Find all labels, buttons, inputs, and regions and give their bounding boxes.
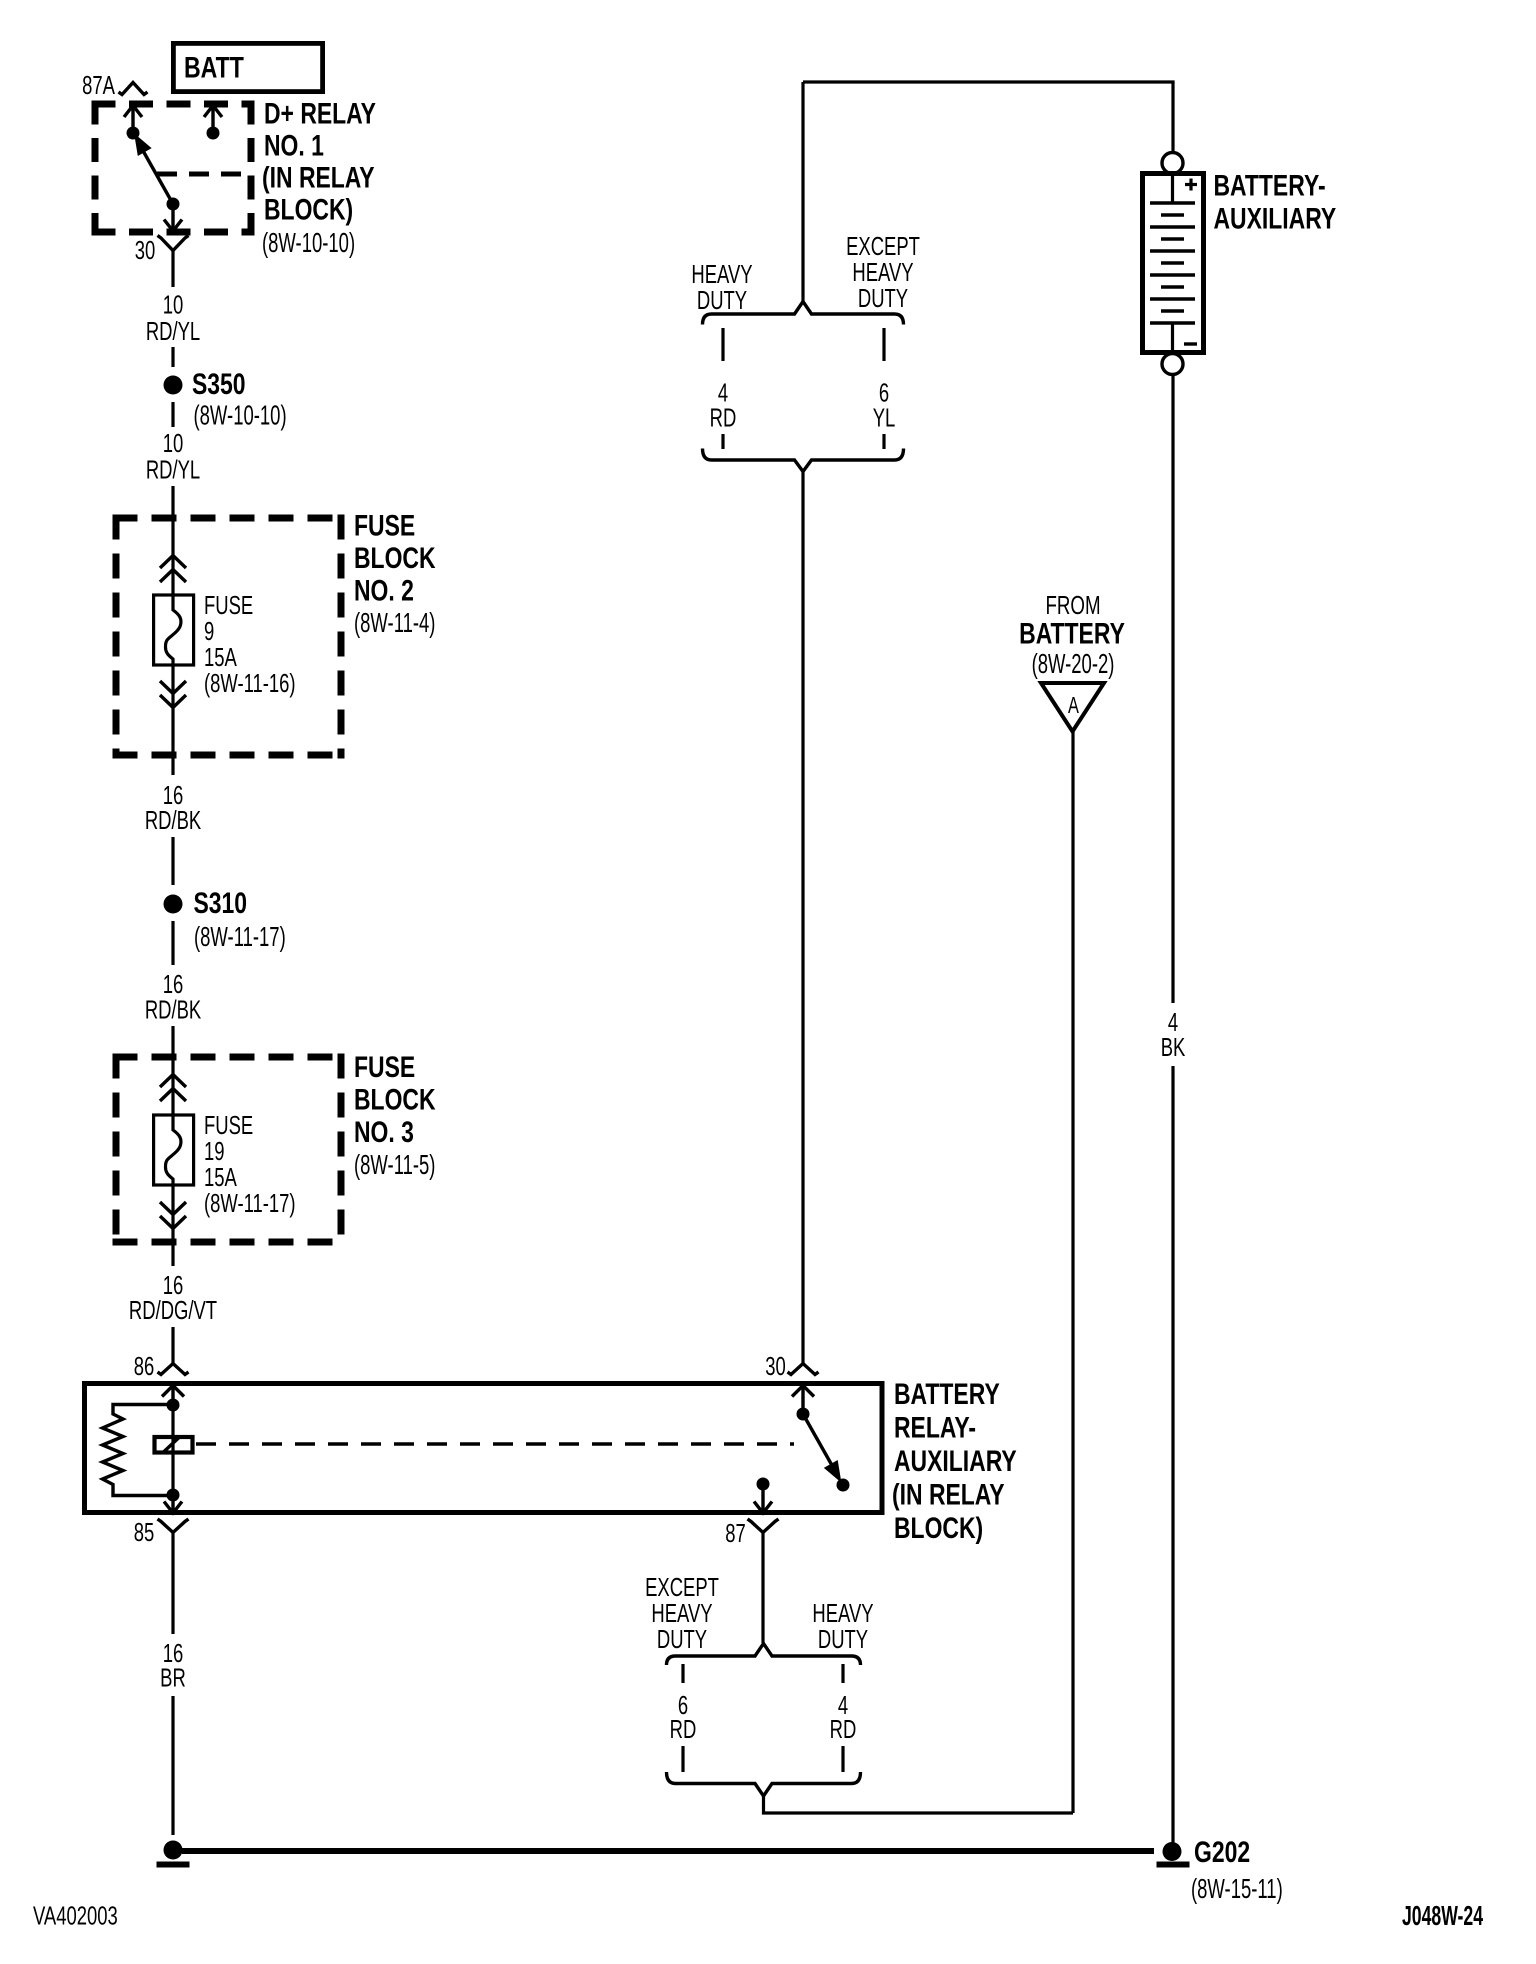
svg-text:AUXILIARY: AUXILIARY xyxy=(894,1444,1017,1478)
off-page connector A triangle xyxy=(1041,683,1104,732)
svg-text:RD/BK: RD/BK xyxy=(145,806,201,835)
wire xyxy=(171,837,174,885)
wire from merge to node with A feed xyxy=(764,1795,1074,1813)
wire xyxy=(1171,1066,1174,1845)
wire label 6 YL xyxy=(873,378,896,432)
svg-text:NO. 3: NO. 3 xyxy=(354,1115,414,1149)
ground symbol G202 xyxy=(1157,1862,1190,1868)
wire through fuse block 2 bottom xyxy=(171,665,174,775)
svg-text:DUTY: DUTY xyxy=(858,284,908,313)
K2 pin 30 terminal arrow xyxy=(792,1386,814,1421)
svg-text:BLOCK): BLOCK) xyxy=(894,1511,983,1545)
svg-text:EXCEPT: EXCEPT xyxy=(645,1573,719,1602)
K1 pin 30 terminal arrow xyxy=(164,204,182,231)
K2 pin 87 terminal arrow xyxy=(754,1478,772,1514)
fuse block no.2 dashed housing xyxy=(113,515,345,759)
svg-text:(8W-11-17): (8W-11-17) xyxy=(194,922,286,953)
fuse block 3 out-connector chevrons xyxy=(160,1202,186,1229)
svg-text:S310: S310 xyxy=(194,886,248,920)
fuse F9 value label xyxy=(204,591,296,698)
svg-text:YL: YL xyxy=(873,403,896,432)
svg-text:(8W-10-10): (8W-10-10) xyxy=(194,401,287,432)
svg-text:RD: RD xyxy=(830,1715,857,1744)
wire xyxy=(171,402,174,427)
wire pin 30 feed down xyxy=(801,471,804,1365)
wire label 16 RD/DG/VT xyxy=(129,1271,217,1325)
wire 85 to ground xyxy=(171,1533,174,1635)
pin 30 female connector xyxy=(158,236,189,251)
svg-text:DUTY: DUTY xyxy=(657,1625,707,1654)
fuse F19 15A body xyxy=(154,1114,194,1185)
branch wire xyxy=(681,1746,684,1772)
K2 name label BATTERY RELAY-AUXILIARY (IN RELAY BLOCK) xyxy=(892,1377,1017,1545)
relay K1 D+ RELAY NO.1 dashed housing xyxy=(92,101,255,236)
K2 internal dashed actuator link xyxy=(196,1442,794,1445)
svg-text:BATTERY: BATTERY xyxy=(894,1377,1000,1411)
K2 coil xyxy=(155,1405,193,1502)
wire to relay pin 86 xyxy=(171,1327,174,1365)
svg-text:S350: S350 xyxy=(192,367,246,401)
fuse block 2 in-connector chevrons xyxy=(160,556,186,583)
svg-text:RELAY-: RELAY- xyxy=(894,1411,976,1445)
K2 coil suppression resistor xyxy=(103,1405,174,1496)
svg-text:19: 19 xyxy=(204,1137,225,1166)
svg-text:87A: 87A xyxy=(82,71,115,100)
svg-text:FUSE: FUSE xyxy=(354,509,415,543)
svg-text:DUTY: DUTY xyxy=(818,1625,868,1654)
wire into fuse block 3 xyxy=(171,1026,174,1115)
branch wire heavy duty xyxy=(721,328,724,361)
svg-text:87: 87 xyxy=(725,1519,746,1548)
battery name label xyxy=(1214,169,1337,236)
svg-text:30: 30 xyxy=(765,1352,786,1381)
branch label EXCEPT HEAVY DUTY xyxy=(645,1573,719,1654)
K1 internal dashed link xyxy=(157,172,252,177)
ground G202 node xyxy=(1163,1842,1182,1861)
branch wire xyxy=(882,434,885,449)
pin BATT terminal of K1 xyxy=(204,106,222,140)
option merge brace bottom (87 circuit) xyxy=(667,1772,861,1796)
svg-text:15A: 15A xyxy=(204,1163,237,1192)
branch wire except heavy duty xyxy=(882,328,885,361)
wire label 6 RD xyxy=(670,1691,697,1744)
pin 85 female connector xyxy=(158,1519,189,1533)
svg-text:9: 9 xyxy=(204,617,214,646)
battery BATTERY-AUXILIARY xyxy=(1143,82,1204,375)
pin 87A female connector xyxy=(119,83,148,95)
svg-text:HEAVY: HEAVY xyxy=(812,1599,873,1628)
wire label 16 BR xyxy=(160,1639,186,1692)
wire xyxy=(171,921,174,965)
branch wire except heavy duty xyxy=(681,1664,684,1683)
fuse block no.3 name label xyxy=(354,1050,436,1181)
svg-text:86: 86 xyxy=(134,1352,155,1381)
wire battery negative down xyxy=(1171,375,1174,1004)
svg-text:NO. 2: NO. 2 xyxy=(354,574,414,608)
wire label 10 RD/YL xyxy=(146,429,200,484)
K1 name label D+ RELAY NO. 1 (IN RELAY BLOCK) xyxy=(262,97,376,260)
svg-text:FUSE: FUSE xyxy=(204,1111,253,1140)
ground splice left xyxy=(164,1841,183,1860)
option merge brace bottom (30 circuit) xyxy=(703,449,904,472)
svg-text:(8W-11-16): (8W-11-16) xyxy=(204,669,296,698)
svg-text:BLOCK): BLOCK) xyxy=(264,193,353,227)
svg-text:EXCEPT: EXCEPT xyxy=(846,232,920,261)
wire label 4 RD xyxy=(830,1691,857,1744)
fuse block no.2 name label xyxy=(354,509,436,640)
svg-text:(IN RELAY: (IN RELAY xyxy=(262,161,375,195)
svg-text:RD/YL: RD/YL xyxy=(146,317,200,346)
wire label 4 BK xyxy=(1161,1008,1186,1062)
svg-text:BLOCK: BLOCK xyxy=(354,1083,436,1117)
branch wire xyxy=(721,434,724,449)
svg-text:RD: RD xyxy=(710,403,737,432)
branch wire xyxy=(841,1746,844,1772)
svg-text:30: 30 xyxy=(135,236,156,265)
option split brace top (87 circuit) xyxy=(667,1644,861,1666)
svg-text:AUXILIARY: AUXILIARY xyxy=(1214,202,1337,236)
svg-text:RD/YL: RD/YL xyxy=(146,455,200,484)
svg-text:BLOCK: BLOCK xyxy=(354,541,436,575)
wire label 16 RD/BK xyxy=(145,781,201,835)
wire label 16 RD/BK xyxy=(145,970,201,1024)
svg-text:RD/DG/VT: RD/DG/VT xyxy=(129,1296,217,1325)
svg-text:HEAVY: HEAVY xyxy=(691,260,752,289)
svg-text:(8W-15-11): (8W-15-11) xyxy=(1191,1874,1283,1905)
wire into fuse block 2 xyxy=(171,486,174,595)
pin 87 female connector xyxy=(748,1519,779,1533)
wire 30 feed top from BATT bus xyxy=(803,80,1175,83)
splice S350 xyxy=(164,367,287,432)
svg-text:(8W-11-5): (8W-11-5) xyxy=(354,1150,435,1181)
option split brace top (30 circuit) xyxy=(703,302,904,325)
wire through fuse block 3 bottom xyxy=(171,1185,174,1266)
svg-text:A: A xyxy=(1068,693,1079,718)
svg-text:(8W-10-10): (8W-10-10) xyxy=(262,228,355,259)
pin 30 female connector xyxy=(788,1364,819,1375)
svg-text:FUSE: FUSE xyxy=(204,591,253,620)
svg-text:RD/BK: RD/BK xyxy=(145,995,201,1024)
svg-text:HEAVY: HEAVY xyxy=(852,258,913,287)
ground G202 label xyxy=(1191,1835,1283,1905)
wire xyxy=(171,1696,174,1835)
K2 pin 85 terminal arrow xyxy=(164,1495,182,1513)
branch label HEAVY DUTY right xyxy=(812,1599,873,1654)
svg-text:(IN RELAY: (IN RELAY xyxy=(892,1478,1005,1512)
svg-text:(8W-20-2): (8W-20-2) xyxy=(1032,649,1115,680)
ground bus wire xyxy=(182,1848,1154,1854)
svg-text:BK: BK xyxy=(1161,1033,1186,1062)
svg-text:10: 10 xyxy=(163,290,184,319)
svg-text:RD: RD xyxy=(670,1715,697,1744)
svg-text:BATT: BATT xyxy=(184,51,244,85)
wire label 4 RD xyxy=(710,378,737,432)
svg-text:BR: BR xyxy=(160,1663,186,1692)
wire down to option split xyxy=(801,82,804,302)
K1 switch arm with arrow xyxy=(137,138,180,211)
BATT feed box B+ xyxy=(173,43,322,91)
svg-text:HEAVY: HEAVY xyxy=(651,1599,712,1628)
svg-text:85: 85 xyxy=(134,1518,155,1547)
FROM BATTERY source label xyxy=(1019,590,1125,680)
fuse F9 15A body xyxy=(154,594,194,665)
svg-text:VA402003: VA402003 xyxy=(33,1901,118,1930)
relay K2 BATTERY RELAY-AUXILIARY housing xyxy=(85,1384,883,1513)
branch wire heavy duty xyxy=(841,1664,844,1683)
svg-text:DUTY: DUTY xyxy=(697,286,747,315)
fuse F19 value label xyxy=(204,1111,296,1218)
svg-text:G202: G202 xyxy=(1194,1835,1250,1869)
svg-text:BATTERY-: BATTERY- xyxy=(1214,169,1326,203)
fuse block 2 out-connector chevrons xyxy=(160,681,186,708)
wire 30 to S350 xyxy=(171,251,174,288)
fuse block 3 in-connector chevrons xyxy=(160,1075,186,1102)
wire xyxy=(171,347,174,367)
branch label HEAVY DUTY left xyxy=(691,260,752,315)
svg-text:15A: 15A xyxy=(204,643,237,672)
K2 switch arm with arrow xyxy=(803,1414,850,1492)
svg-text:NO. 1: NO. 1 xyxy=(264,129,324,163)
splice S310 xyxy=(164,886,286,953)
svg-text:10: 10 xyxy=(163,429,184,458)
branch label EXCEPT HEAVY DUTY right xyxy=(846,232,920,313)
fuse block no.3 dashed housing xyxy=(113,1054,345,1246)
wire 87 to option split xyxy=(761,1533,764,1644)
wire A to node xyxy=(1071,732,1074,1814)
svg-text:D+ RELAY: D+ RELAY xyxy=(264,97,376,131)
wire label 10 RD/YL xyxy=(146,290,200,345)
pin 86 female connector xyxy=(158,1364,189,1375)
svg-text:J048W-24: J048W-24 xyxy=(1402,1900,1483,1931)
svg-text:(8W-11-17): (8W-11-17) xyxy=(204,1189,296,1218)
svg-text:FROM: FROM xyxy=(1045,590,1100,620)
ground symbol left xyxy=(157,1862,190,1868)
svg-text:(8W-11-4): (8W-11-4) xyxy=(354,608,435,639)
K2 pin 86 terminal arrow xyxy=(162,1386,184,1412)
pin 87A terminal xyxy=(124,106,142,140)
svg-text:FUSE: FUSE xyxy=(354,1050,415,1084)
svg-text:BATTERY: BATTERY xyxy=(1019,617,1125,651)
